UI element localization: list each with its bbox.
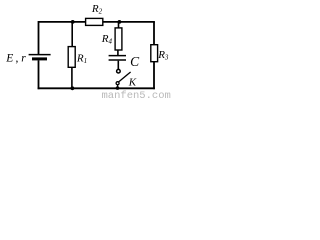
switch K blade — [119, 72, 131, 82]
svg-text:R3: R3 — [157, 49, 169, 61]
resistor R4 — [115, 28, 122, 50]
svg-text:C: C — [130, 54, 140, 69]
wire left edge upper — [38, 21, 40, 55]
node junction dot top R4 — [118, 20, 122, 24]
wire R4 to capacitor — [117, 50, 119, 56]
battery E r long plate — [29, 54, 51, 56]
wire R4 branch upper lead — [118, 22, 120, 28]
wire right edge upper — [153, 22, 155, 45]
svg-text:R1: R1 — [76, 53, 87, 65]
wire R1 branch upper lead — [71, 22, 73, 47]
svg-text:manfen5.com: manfen5.com — [102, 90, 171, 98]
switch K bottom contact circle — [116, 82, 119, 85]
resistor R2 — [86, 18, 103, 25]
node junction dot top R1 — [71, 20, 75, 24]
capacitor C top plate — [109, 55, 126, 57]
battery E r short thick plate — [32, 57, 47, 60]
wire top right segment — [103, 21, 155, 23]
svg-text:K: K — [128, 76, 137, 88]
wire capacitor to switch — [117, 61, 119, 70]
resistor R3 — [151, 45, 158, 62]
wire top left segment — [39, 21, 86, 23]
wire switch stub — [117, 85, 119, 88]
wire right edge lower — [153, 62, 155, 89]
switch K top contact circle — [117, 69, 121, 73]
wire R1 branch lower lead — [71, 67, 73, 88]
resistor R1 — [68, 47, 75, 68]
node junction dot switch bottom — [116, 86, 120, 90]
node junction dot bottom R1 — [71, 86, 75, 90]
svg-text:R2: R2 — [91, 3, 103, 15]
svg-text:R4: R4 — [101, 33, 113, 45]
svg-text:E , r: E , r — [5, 52, 26, 64]
wire bottom — [38, 87, 155, 89]
wire left edge lower — [38, 60, 40, 89]
capacitor C bottom plate — [109, 59, 126, 61]
